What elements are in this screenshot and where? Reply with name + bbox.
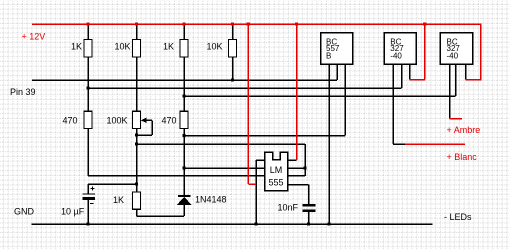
wire 555 pin5 to 10nF bbox=[288, 185, 309, 205]
resistor 1K bottom bbox=[133, 192, 141, 209]
svg-text:10nF: 10nF bbox=[278, 203, 299, 213]
capacitor 10uF plus plate thin bbox=[83, 193, 96, 194]
wire BC557 base pin bbox=[336, 64, 338, 80]
wire resistor 1K no1 column bbox=[87, 25, 89, 111]
resistor 470 no2 bbox=[180, 111, 188, 128]
svg-text:1K: 1K bbox=[163, 42, 174, 52]
node junction dots red on +12V bus bbox=[86, 22, 426, 25]
svg-text:10 µF: 10 µF bbox=[61, 207, 85, 217]
resistor 470 no1 bbox=[84, 111, 92, 128]
wire 555 gnd vertical bbox=[255, 160, 257, 224]
svg-text:100K: 100K bbox=[106, 116, 127, 126]
wire 10nF bottom bbox=[308, 212, 310, 224]
wire 10uF bottom bbox=[87, 200, 89, 224]
wire resistor 10K no2 column bbox=[232, 25, 234, 80]
wire BC327no1 collector pin bbox=[393, 64, 406, 144]
op-amp U1 LM555 body with notch bbox=[265, 152, 288, 191]
wire +12V bus bbox=[32, 24, 481, 80]
wire Pin39 net horizontal bbox=[32, 79, 337, 81]
wire 470 no1 to 555 pin 7 bbox=[88, 129, 305, 176]
svg-text:470: 470 bbox=[62, 116, 77, 126]
resistor 1K top no1 bbox=[84, 40, 92, 58]
wire resistor 10K no1 column bbox=[136, 25, 138, 111]
wire 1K bottom to diode bbox=[137, 205, 185, 216]
node junction dots black bbox=[86, 78, 330, 225]
wire BC327no2 collector pin bbox=[449, 64, 451, 118]
resistor 10K top no1 bbox=[133, 40, 141, 58]
capacitor 10nF bottom plate bbox=[303, 209, 316, 212]
wire BC327no2 base pin bbox=[455, 64, 457, 96]
wire pot wiper bbox=[137, 120, 153, 135]
wire 470 no2 to diode top bbox=[183, 129, 185, 196]
wire resistor 1K no2 column bbox=[183, 25, 185, 111]
svg-text:LM: LM bbox=[270, 165, 283, 175]
svg-text:GND: GND bbox=[14, 207, 35, 217]
svg-text:-40: -40 bbox=[390, 51, 402, 60]
capacitor 10uF minus plate thick bbox=[83, 197, 96, 200]
svg-text:1K: 1K bbox=[71, 42, 82, 52]
potentiometer 100K body bbox=[133, 111, 141, 128]
diode 1N4148 triangle bbox=[177, 197, 192, 205]
diode 1N4148 cathode bar bbox=[178, 195, 190, 197]
svg-text:B: B bbox=[326, 51, 331, 60]
wire diode cathode to 555 pin 2 bbox=[184, 167, 305, 169]
wire pot wiper node to 555 pins 6-7 bbox=[137, 144, 306, 176]
wire Ambre output bbox=[450, 118, 463, 120]
wire base net BC327 no2 bbox=[184, 95, 456, 97]
wire 10uF top link bbox=[88, 184, 137, 194]
transistor Q1 BC557B body bbox=[321, 33, 353, 65]
wire +12V to BC327no1 emitter bbox=[410, 24, 425, 80]
resistor 10K top no2 bbox=[229, 40, 237, 58]
potentiometer 100K wiper arrowhead bbox=[141, 118, 147, 123]
svg-text:+ Blanc: + Blanc bbox=[447, 152, 478, 162]
wire 555 vcc stub bbox=[288, 159, 297, 161]
svg-text:1N4148: 1N4148 bbox=[195, 195, 227, 205]
wire GND rail bbox=[32, 223, 433, 225]
wire base net BC327 no1 bbox=[88, 87, 402, 89]
svg-text:1K: 1K bbox=[113, 195, 124, 205]
resistor 1K top no2 bbox=[180, 40, 188, 58]
wire BC557 collector to diode node bbox=[184, 64, 345, 135]
svg-text:Pin 39: Pin 39 bbox=[10, 87, 36, 97]
wire BC327no2 emitter pin bbox=[465, 64, 467, 79]
transistor Q2 BC327-40 no1 body bbox=[384, 33, 416, 65]
wire +12V to 555 vcc bbox=[296, 24, 298, 160]
svg-text:10K: 10K bbox=[114, 42, 130, 52]
svg-text:+ Ambre: + Ambre bbox=[447, 125, 481, 135]
wire BC327no1 emitter pin bbox=[409, 64, 411, 79]
wire +12V to 555 reset bbox=[248, 24, 256, 184]
wire pot bottom column bbox=[136, 129, 138, 193]
svg-text:10K: 10K bbox=[206, 42, 222, 52]
capacitor 10nF top plate bbox=[303, 204, 316, 207]
svg-text:- LEDs: - LEDs bbox=[444, 212, 472, 222]
svg-text:+ 12V: + 12V bbox=[22, 32, 46, 42]
transistor Q3 BC327-40 no2 body bbox=[440, 33, 472, 65]
wire BC557 pin1 to GND bbox=[328, 64, 330, 224]
wire BC327no1 base pin bbox=[401, 64, 403, 88]
capacitor 10uF minus sign bbox=[90, 202, 93, 204]
wire Blanc output bbox=[405, 143, 465, 145]
wire 555 reset stub bbox=[256, 159, 265, 161]
capacitor 10uF plus sign bbox=[90, 187, 94, 191]
svg-text:555: 555 bbox=[268, 178, 283, 188]
svg-text:-40: -40 bbox=[447, 51, 459, 60]
svg-text:470: 470 bbox=[161, 116, 176, 126]
